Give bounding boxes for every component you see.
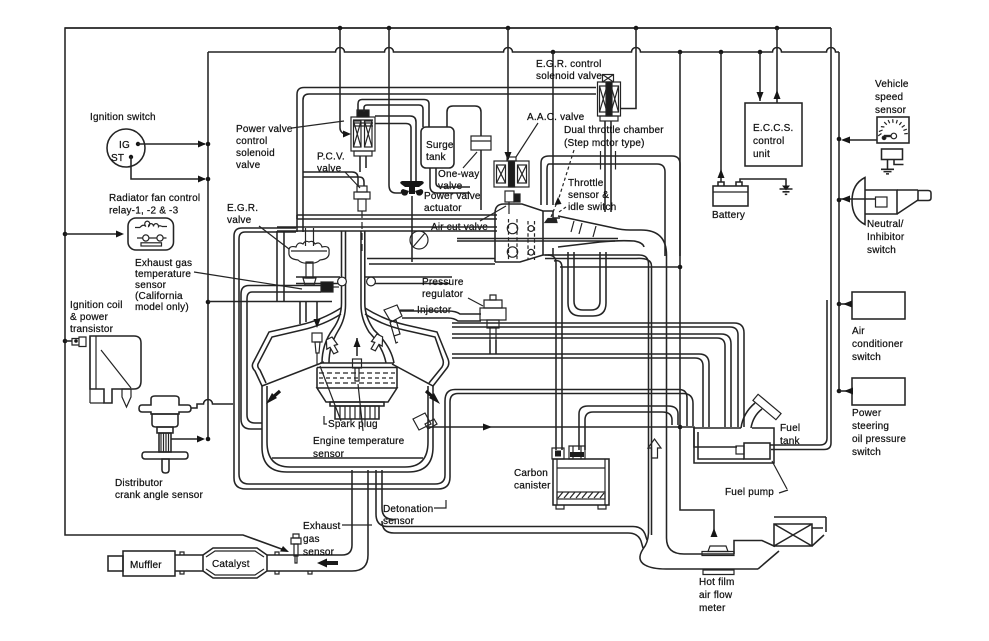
battery [713, 182, 748, 206]
wire from distributor cap going right (spark wire) [191, 400, 233, 409]
vertical wire x=760 into ECCS [759, 52, 761, 101]
exhaust gas sensor icon [291, 534, 301, 563]
svg-text:Power: Power [852, 408, 882, 419]
ground symbol [782, 186, 790, 191]
pipe from EGR base down to engine side [241, 286, 321, 430]
neutral switch wire [839, 198, 875, 200]
exhaust pipe muffler-catalyst [175, 552, 203, 574]
fuel pump [736, 443, 770, 459]
svg-text:Catalyst: Catalyst [212, 559, 250, 570]
svg-text:Ignition switch: Ignition switch [90, 112, 156, 123]
svg-text:(Step motor type): (Step motor type) [564, 138, 645, 149]
AFM element [702, 546, 734, 575]
chamber pipe from throttle chamber top going right and down into duct [541, 156, 680, 256]
vacuum gallery pipes above plenum [277, 215, 497, 231]
top bus wire y=28 [65, 27, 831, 29]
air conditioner switch box [852, 292, 905, 319]
fuel pipe from injector to pressure regulator [400, 311, 481, 321]
fuel filler neck [741, 403, 762, 428]
U-loop pipe below throttle [568, 252, 606, 316]
pipe row R2 to tank top [452, 334, 731, 427]
muffler tailpipe stub [108, 556, 123, 571]
svg-text:valve: valve [317, 164, 342, 175]
exhaust flow arrow [322, 561, 338, 565]
svg-text:solenoid: solenoid [236, 148, 275, 159]
svg-text:Fuel pump: Fuel pump [725, 487, 774, 498]
svg-text:meter: meter [699, 603, 726, 614]
air cut valve circle on plenum [410, 231, 428, 249]
pipe from pressure regulator down to R3 [490, 340, 496, 354]
battery to ground wire [740, 179, 786, 187]
power valve actuator icon [400, 181, 424, 196]
wire from detonation area y=427 to bus and onward to fuel pump [428, 427, 737, 447]
muffler [123, 551, 175, 576]
outer border frame [65, 28, 831, 551]
wire from border to relay [65, 233, 120, 235]
vertical wire x=636 to EGR control solenoid [621, 28, 636, 109]
svg-text:(California: (California [135, 291, 183, 302]
svg-text:Throttle: Throttle [568, 178, 604, 189]
E.C.C.S. control unit box [745, 103, 802, 166]
open up arrow near fuel tank [648, 439, 661, 458]
svg-text:solenoid valve: solenoid valve [536, 71, 602, 82]
engine temperature sensor in plenum [353, 359, 362, 381]
leader power valve label [292, 121, 344, 128]
VSS wire to bus [845, 139, 877, 141]
svg-text:IG: IG [119, 140, 130, 151]
hot film air flow meter duct [640, 533, 779, 569]
svg-text:Battery: Battery [712, 210, 745, 221]
E.G.R. control solenoid valve [598, 75, 621, 122]
svg-text:Dual throttle chamber: Dual throttle chamber [564, 125, 664, 136]
power valve control solenoid valve [351, 110, 375, 156]
right cylinder bank [365, 308, 449, 386]
svg-text:crank angle sensor: crank angle sensor [115, 490, 204, 501]
svg-text:control: control [753, 136, 784, 147]
svg-text:regulator: regulator [422, 289, 464, 300]
svg-text:Exhaust gas: Exhaust gas [135, 258, 192, 269]
svg-text:model only): model only) [135, 302, 189, 313]
leader from temperature label to EGR base [194, 272, 302, 289]
intake duct from throttle to vertical duct [558, 216, 667, 538]
up arrow on AFM wire [711, 528, 718, 537]
svg-text:switch: switch [852, 352, 881, 363]
svg-text:switch: switch [867, 245, 896, 256]
pipe from EGR control solenoid down to throttle chamber [605, 121, 611, 212]
exhaust downpipe up from pipe end [342, 470, 368, 571]
svg-text:actuator: actuator [424, 203, 462, 214]
svg-text:canister: canister [514, 481, 551, 492]
injector icon [384, 305, 402, 343]
svg-text:idle switch: idle switch [568, 202, 616, 213]
intake runner vertical walls [322, 231, 394, 363]
svg-text:One-way: One-way [438, 169, 479, 180]
EGR pipes from gallery to rocker cover [277, 231, 284, 301]
spark plug signal arrow [316, 302, 318, 325]
svg-text:sensor: sensor [875, 105, 907, 116]
runner flow open arrows [326, 334, 382, 354]
svg-text:Radiator fan control: Radiator fan control [109, 193, 200, 204]
left cylinder bank [252, 308, 341, 386]
A.A.C. valve icon [494, 157, 529, 187]
svg-text:tank: tank [426, 152, 447, 163]
neutral/inhibitor switch icon [852, 178, 931, 225]
svg-text:Neutral/: Neutral/ [867, 219, 904, 230]
canister purge pipe from throttle down [548, 255, 562, 450]
svg-text:steering: steering [852, 421, 889, 432]
throttle sensor pad [545, 200, 558, 223]
svg-text:Ignition coil: Ignition coil [70, 300, 123, 311]
svg-text:Exhaust: Exhaust [303, 521, 341, 532]
svg-text:Power valve: Power valve [236, 124, 293, 135]
AFM X-box air cleaner joint [774, 517, 826, 546]
vertical wire x=777 from ECCS to top bus [776, 28, 778, 103]
VSS bracket and ground [881, 149, 904, 174]
pipe row R5 canister to tank [579, 406, 678, 450]
svg-text:tank: tank [780, 436, 801, 447]
svg-text:valve: valve [227, 215, 252, 226]
detonation sensor icon [413, 413, 437, 430]
svg-text:Inhibitor: Inhibitor [867, 232, 905, 243]
fuel tank [694, 428, 774, 463]
svg-text:gas: gas [303, 534, 320, 545]
ignition switch [107, 129, 145, 167]
svg-text:Spark plug: Spark plug [328, 419, 378, 430]
node dots on inner top wire [551, 50, 763, 55]
pipe from surge tank to one-way valve [447, 106, 481, 136]
ignition coil icon [72, 336, 141, 407]
svg-text:unit: unit [753, 149, 770, 160]
svg-text:oil pressure: oil pressure [852, 434, 906, 445]
svg-text:A.A.C. valve: A.A.C. valve [527, 112, 585, 123]
wire from crank angle sensor to inner box [171, 438, 198, 440]
svg-text:Carbon: Carbon [514, 468, 548, 479]
svg-text:Air: Air [852, 326, 865, 337]
plenum with fuel hatch [317, 363, 397, 419]
spark plug on left bank [312, 333, 322, 364]
exhaust gas temp sensor at EGR base [321, 282, 339, 292]
svg-text:ST: ST [111, 153, 124, 164]
engine tub outline [262, 386, 433, 472]
wire x=208 junction to EGR base y=302 [208, 301, 332, 303]
svg-text:Detonation: Detonation [383, 504, 433, 515]
throttle chamber body [495, 204, 560, 262]
svg-text:E.G.R. control: E.G.R. control [536, 59, 602, 70]
svg-text:conditioner: conditioner [852, 339, 904, 350]
pipe row R3 to tank top-left [452, 354, 709, 427]
inner box left edge x=208 with hop at y=404 [207, 52, 209, 440]
svg-text:Engine temperature: Engine temperature [313, 436, 405, 447]
svg-text:Distributor: Distributor [115, 478, 163, 489]
svg-text:control: control [236, 136, 267, 147]
throttle butterflies [507, 219, 534, 262]
pipe from actuator down [411, 196, 413, 262]
carbon canister [552, 446, 609, 509]
distributor crank angle sensor icon [139, 396, 191, 473]
pipe row R1 to fuel filler [452, 323, 744, 427]
svg-text:Fuel: Fuel [780, 423, 800, 434]
svg-text:transistor: transistor [70, 324, 114, 335]
svg-text:Hot film: Hot film [699, 577, 735, 588]
spark plug label [324, 416, 327, 424]
pipe joint collars [601, 151, 616, 170]
one-way valve [471, 136, 491, 150]
svg-text:Muffler: Muffler [130, 560, 162, 571]
air cut valve icon below AAC [505, 191, 520, 214]
pipe from solenoid right side down to actuator [375, 116, 416, 181]
pipe from solenoid top to surge tank [358, 100, 429, 128]
engine-to-AFM hose [376, 470, 647, 548]
fuel filler cap [753, 394, 781, 419]
EGR pipe down into bank [300, 302, 306, 324]
svg-text:sensor &: sensor & [568, 190, 609, 201]
svg-text:P.C.V.: P.C.V. [317, 152, 345, 163]
wire from border to ignition coil [65, 340, 72, 342]
pipe from solenoid bottom down to gallery [360, 156, 366, 172]
right bus vertical x=839 [838, 52, 840, 391]
svg-text:sensor: sensor [313, 449, 345, 460]
pipe below one-way valve [480, 150, 482, 210]
svg-text:E.G.R.: E.G.R. [227, 203, 258, 214]
long pipe from PCV riser to EGR control solenoid [297, 88, 596, 233]
surge tank [421, 127, 454, 168]
wire ST down and right to inner box [131, 157, 205, 179]
pipe from gallery around engine left to under-engine run [234, 228, 693, 489]
hatch marks on duct [571, 221, 596, 237]
radiator fan control relay box [128, 218, 174, 250]
svg-text:valve: valve [236, 160, 261, 171]
pipe below surge tank [430, 168, 470, 193]
svg-text:speed: speed [875, 92, 903, 103]
svg-text:sensor: sensor [135, 280, 167, 291]
wire from bus to throttle sensor y=267 [560, 266, 680, 268]
vertical wire x=340 to power valve solenoid [340, 28, 348, 134]
vehicle speed sensor icon [877, 117, 909, 143]
E.G.R. valve icon [289, 228, 329, 285]
svg-text:temperature: temperature [135, 269, 191, 280]
node dots on top bus [338, 26, 780, 31]
pipe from PCV top up-left [303, 172, 364, 186]
svg-text:E.C.C.S.: E.C.C.S. [753, 123, 794, 134]
catalyst [203, 548, 267, 578]
idle pipe from throttle bottom into duct [545, 255, 652, 535]
exhaust pipe catalyst to downpipe [267, 552, 352, 574]
power steering oil pressure switch box [852, 378, 905, 405]
svg-text:& power: & power [70, 312, 109, 323]
svg-text:air flow: air flow [699, 590, 733, 601]
svg-text:Pressure: Pressure [422, 277, 464, 288]
vertical wire x=508 into AAC valve [507, 28, 509, 159]
bank bold arrows [266, 393, 277, 404]
svg-text:switch: switch [852, 447, 881, 458]
vertical wire x=553 to throttle [552, 52, 554, 205]
svg-text:Vehicle: Vehicle [875, 79, 909, 90]
pressure regulator icon [480, 295, 506, 340]
svg-text:Power valve: Power valve [424, 191, 481, 202]
vertical pipe x=389 from top bus downward [389, 28, 401, 193]
P.C.V. valve icon [354, 186, 370, 251]
svg-text:Surge: Surge [426, 140, 454, 151]
svg-text:relay-1, -2 & -3: relay-1, -2 & -3 [109, 206, 179, 217]
wire IG to inner box [138, 143, 205, 145]
vertical wire x=721 to battery [720, 52, 722, 182]
svg-text:sensor: sensor [303, 547, 335, 558]
inner box top wire y=52 with hops [208, 48, 839, 53]
intake channel from throttle to runner [296, 259, 495, 284]
throttle shaft split line [457, 239, 618, 242]
manifold flange circles [338, 277, 376, 286]
right vertical from top border x=831 down to fuel pump line [770, 28, 831, 450]
vertical wire x=680 down to AFM [680, 52, 714, 533]
